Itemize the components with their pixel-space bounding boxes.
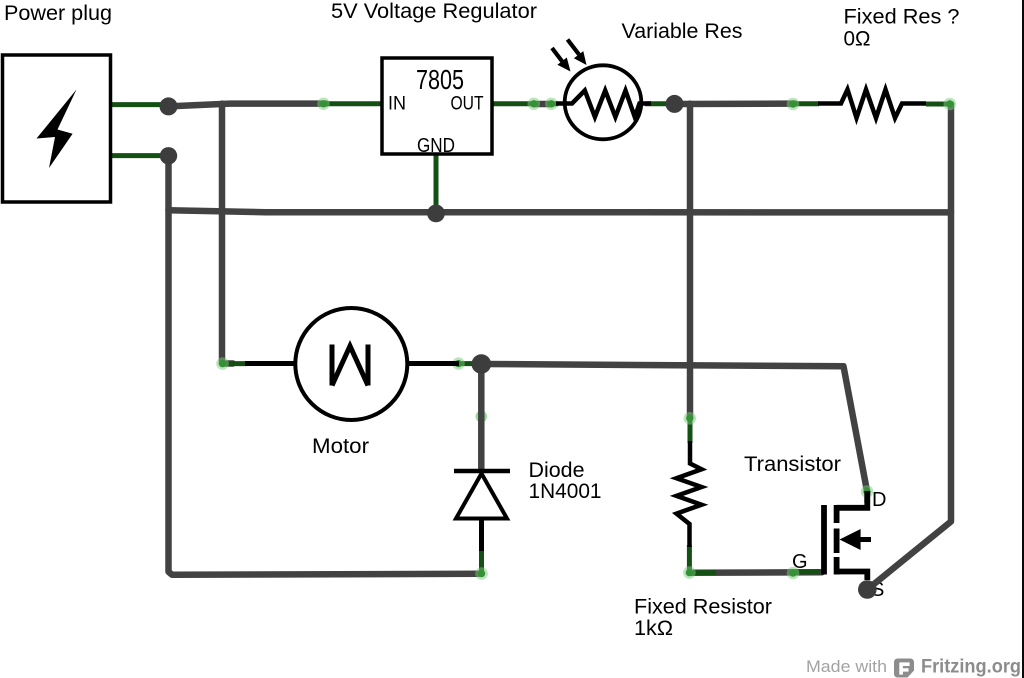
svg-text:Fixed Res ?: Fixed Res ? — [844, 6, 960, 29]
svg-text:Transistor: Transistor — [744, 453, 841, 476]
svg-text:IN: IN — [388, 94, 406, 115]
svg-text:D: D — [872, 489, 886, 511]
svg-text:Motor: Motor — [312, 435, 369, 458]
svg-text:Fritzing.org: Fritzing.org — [921, 657, 1021, 678]
svg-text:Diode: Diode — [529, 459, 585, 482]
svg-text:Variable Res: Variable Res — [622, 20, 743, 43]
svg-text:1kΩ: 1kΩ — [634, 617, 673, 640]
svg-text:1N4001: 1N4001 — [529, 480, 602, 503]
svg-text:OUT: OUT — [451, 94, 484, 115]
svg-text:0Ω: 0Ω — [844, 28, 871, 51]
svg-text:7805: 7805 — [416, 64, 464, 95]
svg-text:Fixed Resistor: Fixed Resistor — [634, 596, 772, 619]
svg-text:G: G — [792, 551, 808, 573]
svg-text:GND: GND — [417, 135, 455, 157]
svg-text:Power plug: Power plug — [4, 2, 112, 25]
svg-text:Made with: Made with — [806, 657, 887, 676]
svg-text:5V Voltage Regulator: 5V Voltage Regulator — [331, 0, 537, 23]
